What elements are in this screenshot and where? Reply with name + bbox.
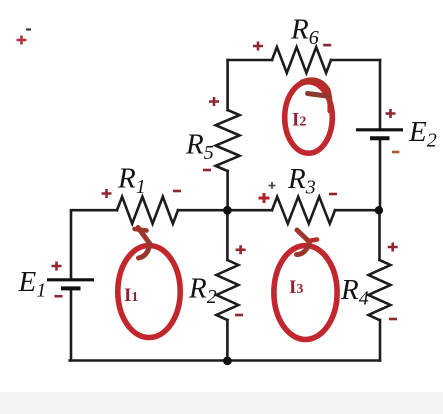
node A (center junction) <box>223 206 232 215</box>
loop I2 ellipse <box>285 82 333 153</box>
polarity - R1 right <box>173 190 181 193</box>
resistor R3 zigzag <box>272 197 335 224</box>
wire: top horizontal left segment <box>228 59 272 62</box>
loop I3 arrow barb <box>309 240 318 242</box>
wire: middle horizontal R1 to R3 through node A <box>178 209 272 212</box>
resistor R5 zigzag <box>216 110 240 171</box>
polarity + R5 top <box>209 97 219 106</box>
polarity + R4 top <box>388 243 398 252</box>
wire: R5 bottom lead to node A <box>226 171 229 210</box>
wire: bottom horizontal <box>70 359 380 362</box>
polarity - R6 right <box>323 44 331 47</box>
wire: left branch bottom lead (E1 bottom plate to bottom wire) <box>70 290 73 361</box>
battery E1 long plate <box>47 278 94 281</box>
wire: E2 bottom lead (short plate to node B) <box>379 140 382 211</box>
loop I1 ellipse <box>118 246 180 338</box>
loop I3 arrow <box>297 230 310 255</box>
polarity - R3 right <box>329 193 337 196</box>
polarity - E2 <box>392 151 400 154</box>
node B (right junction) <box>375 206 383 214</box>
polarity - stray top-left (dark) <box>26 28 31 30</box>
resistor R1 zigzag <box>117 197 178 224</box>
polarity + R1 left <box>102 189 112 198</box>
loop I1 arrow barb <box>135 229 147 231</box>
polarity - E1 <box>55 295 63 298</box>
polarity + R6 left <box>253 42 263 51</box>
wire: top horizontal right segment to corner <box>331 59 380 62</box>
wire: left branch top lead (corner to E1 top plate) <box>70 212 73 279</box>
polarity + R3 left (large red) <box>259 193 270 203</box>
resistor R2 zigzag <box>216 260 238 320</box>
battery E1 short plate <box>61 286 81 290</box>
wire: center branch node A to R2 <box>226 210 229 260</box>
polarity - R5 bottom <box>203 169 211 172</box>
polarity - R2 bottom <box>235 314 243 317</box>
bottom gray strip <box>0 392 443 414</box>
loop I2 arrow <box>302 80 330 111</box>
loop I3 ellipse <box>274 246 337 340</box>
wire: middle horizontal R3 to node B <box>335 209 379 212</box>
polarity + E2 <box>386 109 396 118</box>
polarity + R2 top <box>236 245 246 254</box>
loop I2 arrow barb <box>308 94 328 97</box>
polarity + R3 small dark <box>269 182 276 189</box>
battery E2 long plate <box>356 128 403 131</box>
wire: R5 branch top lead (top-left corner down to R5) <box>226 60 229 110</box>
battery E2 short plate <box>370 136 390 140</box>
polarity + E1 <box>52 262 62 271</box>
resistor R6 zigzag <box>272 47 331 73</box>
wire: center branch R2 to bottom node C <box>226 320 229 361</box>
wire: right branch lead R4 to node B <box>378 210 381 260</box>
wire: middle horizontal left segment (corner to R1) <box>71 209 117 212</box>
wire: right branch lower lead (bottom wire to R4) <box>379 320 382 361</box>
wire: E2 top lead (corner down to E2 long plate) <box>379 60 382 129</box>
node C (bottom junction) <box>223 356 232 365</box>
loop I1 arrow <box>138 228 150 259</box>
polarity + stray top-left <box>17 36 27 45</box>
polarity - R4 bottom <box>389 318 397 321</box>
resistor R4 zigzag <box>369 260 391 320</box>
